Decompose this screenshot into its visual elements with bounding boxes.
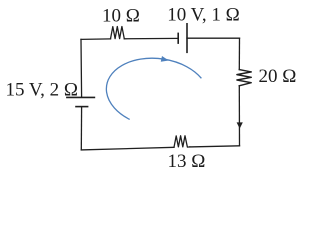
resistor R1 10 ohm (top) [111,27,125,39]
current direction arrow (down) on right wire [237,122,243,128]
svg-text:10 V, 1 Ω: 10 V, 1 Ω [167,5,240,26]
resistor R2 20 ohm (right, vertical) [237,70,251,86]
battery B2 long plate (positive) [67,96,95,98]
wire bottom left segment [81,147,174,150]
wire battery B1 to top-right corner [187,37,240,39]
wire right side upper [238,38,240,69]
wire top-left horizontal [81,38,111,41]
battery B1 long plate (positive) [186,24,188,53]
svg-text:15 V, 2 Ω: 15 V, 2 Ω [6,80,79,101]
wire right side lower [238,86,240,146]
wire left side lower [80,107,82,150]
battery B1 short plate (negative) [177,33,179,43]
wire bottom right segment [190,146,240,147]
wire left side upper [80,39,83,97]
battery B2 short plate (negative) [76,106,88,108]
loop current arrowhead (blue) [161,56,170,63]
svg-text:20 Ω: 20 Ω [259,66,297,87]
svg-text:10 Ω: 10 Ω [102,6,140,27]
svg-text:13 Ω: 13 Ω [168,151,206,172]
resistor R3 13 ohm (bottom) [174,136,190,148]
wire between R1 and battery B1 [124,37,178,39]
loop current arc (blue) [106,58,201,119]
